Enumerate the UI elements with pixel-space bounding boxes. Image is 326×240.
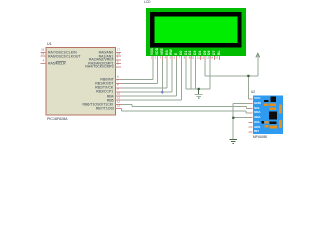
chip U1 left pin stubs: pin16 RA7, pin15 RA6, pin4 RA5 bbox=[41, 53, 47, 64]
U2 orange smd tall right bbox=[279, 104, 282, 113]
wire U2 GND to ground bbox=[233, 104, 248, 140]
U2 black smd left mid bbox=[264, 100, 268, 102]
U2 black smd bottom mid bbox=[269, 122, 276, 125]
LCD pin numbers 1-15 bbox=[150, 57, 152, 60]
U2 orange smd tall bottom right bbox=[279, 120, 282, 128]
U2 black smd bottom left bbox=[262, 121, 264, 123]
LCD screen bezel bbox=[150, 12, 242, 48]
U2 IC chip small top bbox=[270, 97, 276, 103]
junction dot on +5V rail bbox=[247, 75, 249, 77]
U1 left pin names bbox=[48, 51, 77, 55]
wire U2 XDA to ground line bbox=[233, 117, 248, 119]
wire LCD p12 to +5V rail bbox=[205, 60, 258, 76]
power terminal arrow bbox=[256, 53, 260, 57]
label LCD bbox=[144, 1, 150, 4]
LCD screen bbox=[155, 17, 238, 44]
wire LCD p4 to RB2 bbox=[121, 60, 167, 88]
ground symbol near LCD bbox=[195, 89, 203, 98]
MPU6050 U2 pin stubs VCC GND SCL SDA XDA XCL AD0 INT bbox=[249, 99, 253, 132]
LCD pin stubs 1-15 bbox=[153, 56, 220, 60]
U1 right pin numbers bbox=[117, 49, 120, 52]
wire rail drop to U2 VCC bbox=[247, 76, 249, 99]
U2 orange smd mid b bbox=[269, 107, 276, 110]
wire RB3 row to LCD p5 bbox=[121, 60, 172, 92]
chip U1 PIC16F628A body bbox=[46, 47, 116, 115]
wire LCD p3 to RB3 node bbox=[161, 60, 163, 92]
LCD vertical pin names bbox=[151, 48, 154, 55]
label U2 bbox=[251, 91, 255, 94]
U2 orange smd left mid bbox=[264, 104, 268, 106]
U1 right pin names RB bbox=[100, 78, 113, 82]
chip U1 right pin stubs RA0-RA4: pins 17,18,1,2,3 bbox=[116, 53, 122, 67]
junction diamond on RB3 node bbox=[161, 90, 164, 94]
U2 orange smd bottom left b bbox=[264, 125, 268, 127]
wire LCD p1 to RB0 bbox=[121, 60, 153, 79]
U1 right pin names RA bbox=[99, 51, 114, 55]
U2 orange smd mid a bbox=[269, 104, 276, 107]
U2 pin names bbox=[254, 97, 261, 100]
wire RB6 to U2 SCL bbox=[121, 104, 249, 108]
wire LCD p2 to RB1 bbox=[121, 60, 158, 83]
wire LCD p8 p9 p10 p13 to ground node bbox=[186, 60, 210, 89]
MPU6050 module U2 board bbox=[253, 96, 283, 135]
junction dot at LCD ground node bbox=[198, 88, 200, 90]
label U1 bbox=[47, 42, 52, 46]
wire RB7 to U2 SDA bbox=[121, 109, 249, 114]
label MPU6050 bbox=[253, 136, 267, 139]
chip U1 right pin stubs RB0-RB7: pins 6,7,8,9,10,11,12,13 bbox=[116, 80, 122, 109]
U2 IC chip large center bbox=[269, 111, 277, 119]
wire RB4 to LCD p6 bbox=[121, 60, 177, 96]
wire RB5 to LCD p7 bbox=[121, 60, 181, 100]
label PIC16F628A bbox=[47, 117, 68, 121]
ground symbol below U2 bbox=[229, 140, 237, 144]
U2 orange smd bottom wide bbox=[269, 125, 277, 128]
U2 orange smd bottom left a bbox=[264, 121, 268, 123]
LCD body bbox=[146, 8, 246, 56]
junction dot at U2 XDA ground tap bbox=[232, 117, 234, 119]
U1 left pin numbers 16 15 4 bbox=[41, 49, 44, 52]
wire power arrow stem bbox=[257, 57, 259, 76]
